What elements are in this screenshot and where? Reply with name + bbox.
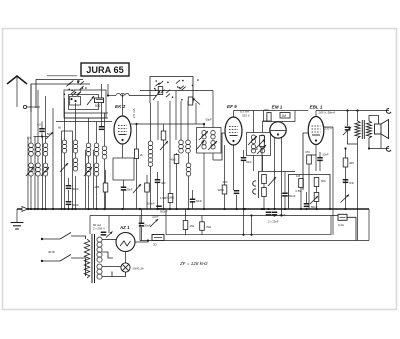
svg-text:25k: 25k — [190, 224, 195, 228]
osc rail — [140, 90, 213, 92]
EBL1 top lead — [315, 111, 317, 117]
trimmer C4 arrow — [87, 96, 94, 105]
bus junction x204 — [203, 208, 205, 210]
oscillator coil L10 — [186, 140, 191, 153]
bias network frame — [289, 175, 331, 210]
IFT2 primary b — [251, 145, 255, 154]
det cap lead2 — [243, 161, 245, 209]
tone corr capacitor 8nF — [345, 127, 351, 131]
feed v8 — [96, 122, 98, 144]
osc coil feed — [150, 103, 152, 141]
EF9 top lead — [233, 111, 235, 118]
AZ1 filament to lamp — [125, 252, 127, 263]
EM1 1M resistor — [280, 113, 290, 119]
dropper lead down — [201, 230, 203, 234]
tuner lower rail — [56, 121, 112, 123]
mixer tube EK2 — [114, 116, 131, 144]
junction EK2 grid — [121, 94, 123, 96]
osc trimmer T6 — [196, 141, 204, 150]
wave switch inner box — [69, 95, 99, 110]
osc pad lead — [146, 175, 148, 183]
osc resistor 40 — [174, 155, 179, 164]
bleeder resistor 25k — [183, 221, 188, 230]
svg-text:465: 465 — [349, 161, 354, 165]
tuner top rail — [47, 75, 77, 77]
EBL1 cap drop — [319, 161, 321, 171]
feed v6 — [75, 103, 77, 140]
rectifier filter caps — [101, 232, 107, 236]
B plus rail inner — [166, 234, 331, 236]
B rail v2 — [330, 216, 332, 235]
antenna coil L2 — [36, 143, 41, 156]
bus junction x176.5 — [175, 208, 177, 210]
EF9 top wire — [234, 110, 264, 112]
svg-text:320Ω: 320Ω — [218, 188, 225, 192]
bus junction x285 — [284, 208, 286, 210]
bus junction x264 — [263, 208, 265, 210]
EF9 cathode drop2 — [236, 195, 238, 209]
decoupling cap 20nF — [121, 187, 127, 191]
bus junction x274.5 — [273, 208, 275, 210]
EM1 series resistor 2M — [267, 113, 271, 122]
IFT1 primary — [202, 131, 206, 140]
bus junction x64.5 — [63, 208, 65, 210]
svg-text:52nF: 52nF — [323, 153, 329, 157]
decoup cap lead2 — [123, 191, 125, 210]
secondary bottom lead — [368, 138, 370, 149]
antenna coil L1 — [29, 143, 34, 156]
IFT1 secondary — [211, 131, 215, 140]
coil stub 5 — [75, 153, 77, 158]
padding cap C8 — [66, 185, 72, 189]
AF cap lead down — [284, 197, 286, 210]
osc coil L11 lead — [188, 153, 190, 163]
volume res drop — [263, 197, 265, 210]
antenna terminal — [23, 105, 26, 108]
bleeder lead2 — [185, 230, 187, 235]
svg-text:EBL 1: EBL 1 — [310, 105, 323, 110]
bus junction x224.5 — [223, 208, 225, 210]
tuning cap line 2 dot — [34, 208, 36, 210]
osc padder lead — [41, 122, 43, 129]
bus junction x38 — [37, 208, 39, 210]
antenna coil L3 — [43, 143, 48, 156]
tuning cap line 1 dot — [27, 208, 29, 210]
EK2 grid top lead — [122, 96, 124, 117]
tone corr drop — [347, 131, 349, 142]
bus junction x104.5 — [103, 208, 105, 210]
mains terminal lower — [41, 260, 43, 262]
IFT2 secondary bottom lead — [262, 156, 264, 172]
svg-text:50nF: 50nF — [72, 187, 79, 191]
AF cap lead up — [284, 172, 286, 193]
IFT2 trimmer arrow 1 — [248, 136, 257, 145]
padding cap C9 — [66, 201, 72, 205]
svg-text:+185: +185 — [93, 185, 100, 189]
tuning cap dot 5 — [71, 208, 73, 210]
antenna lead wire — [16, 77, 18, 107]
EBL1 cathode drop — [315, 145, 317, 172]
junction antenna feed — [107, 94, 109, 96]
EM1 grid pot 0,1M — [260, 136, 265, 147]
filter cap C30 — [139, 223, 145, 227]
EF9 cath res lead — [224, 145, 226, 185]
bus junction x330 — [329, 208, 331, 210]
coil stub 1 — [30, 156, 32, 163]
bus junction x245 — [244, 208, 246, 210]
antenna coil L2b — [36, 163, 41, 176]
IFT1 trimmer arrow 1 — [199, 131, 208, 140]
padder cap 4,5 — [39, 128, 45, 132]
HT tap lower — [102, 252, 113, 258]
tuning cap line 7 — [93, 150, 95, 209]
rectifier cap arrow — [106, 232, 113, 238]
EBL1 cathode resistor — [307, 155, 312, 164]
svg-text:40 W: 40 W — [48, 250, 56, 254]
EBL1 cath res drop — [308, 164, 310, 209]
secondary top lead — [369, 116, 379, 125]
svg-text:4nF: 4nF — [161, 181, 166, 185]
feed v2 — [37, 90, 39, 143]
dropper lead up — [201, 216, 203, 222]
ground lead — [16, 209, 18, 222]
svg-text:320: 320 — [223, 180, 228, 184]
bus junction x243.5 — [242, 208, 244, 210]
coil drop 3 — [45, 176, 47, 209]
output tube EBL1 — [308, 117, 324, 145]
output transformer secondary — [366, 121, 371, 138]
EK2 grid capacitor — [99, 126, 105, 130]
antenna wire to tuner — [27, 106, 40, 108]
tone corr arrow — [343, 127, 351, 135]
EK2 plate res dot — [135, 123, 137, 125]
feed v9 — [104, 113, 106, 146]
antenna choke coil — [116, 93, 129, 95]
EM1 top network box — [264, 111, 296, 122]
feed v5 — [64, 98, 66, 140]
bus junction x301 — [300, 208, 302, 210]
IFT1 trimmer arrow 2 — [208, 141, 217, 150]
oscillator shield box — [113, 158, 134, 180]
gramo terminal hooks — [253, 181, 256, 186]
bus junction x262 — [261, 208, 263, 210]
bus junction x345.5 — [344, 208, 346, 210]
speaker return wire — [369, 148, 389, 150]
mid cap lead2 — [157, 183, 159, 209]
IFT1 secondary b — [211, 141, 215, 150]
bus junction x122.5 — [121, 208, 123, 210]
osc res lead2 — [176, 164, 178, 210]
RF coil L7b — [94, 163, 99, 176]
oscillator trimmer arrow — [153, 91, 160, 100]
IF amp tube EF9 — [225, 117, 242, 145]
IFT1 to EF9 grid — [213, 133, 225, 160]
junction padder — [41, 135, 43, 137]
svg-text:50nF: 50nF — [289, 194, 296, 198]
filter cap lead2 — [141, 227, 143, 241]
speaker — [375, 124, 382, 134]
osc pad resistor — [145, 183, 150, 192]
svg-text:50nF: 50nF — [72, 203, 79, 207]
junction plate rail a — [346, 109, 348, 111]
coil stub 2 — [37, 156, 39, 163]
osc grid res lead — [163, 124, 165, 131]
RF coil L8 — [102, 146, 107, 159]
EF9 cath res lead2 — [224, 194, 226, 209]
bus junction x53 — [52, 208, 54, 210]
svg-text:3,5: 3,5 — [27, 136, 32, 140]
svg-text:2,5 mA: 2,5 mA — [132, 108, 136, 118]
EBL1 plate top wire — [316, 110, 389, 112]
AVC resistor 1,5M — [168, 194, 173, 203]
svg-text:6V/0,3A: 6V/0,3A — [133, 267, 144, 271]
EBL1 grid wire — [303, 133, 308, 190]
junction speaker return — [368, 147, 370, 149]
magic eye tube EM1 — [270, 122, 286, 138]
IFT2 secondary top lead — [262, 121, 264, 133]
oscillator coil L12b — [148, 154, 153, 167]
trimmer T3 — [60, 163, 68, 172]
detector cap 100pF — [241, 157, 247, 161]
osc res lead — [176, 153, 178, 155]
svg-text:470: 470 — [305, 150, 310, 154]
svg-text:10nF: 10nF — [246, 160, 252, 164]
speaker line hook bottom — [386, 146, 391, 151]
B rail v4b — [251, 216, 253, 235]
tuner right feeder — [101, 84, 103, 113]
EM1 cathode drop1 — [274, 138, 276, 209]
heater tap a — [102, 266, 121, 268]
bus junction x75.5 — [74, 208, 76, 210]
svg-text:2 x 295 V: 2 x 295 V — [93, 227, 105, 231]
svg-text:100nF: 100nF — [147, 202, 155, 206]
osc trimmer T5 — [160, 141, 168, 150]
EF9 cathode resistor — [222, 185, 227, 194]
osc pad lead2 — [146, 192, 148, 209]
RF coil L7 — [94, 143, 99, 156]
IFT2 secondary b — [260, 145, 264, 154]
IFT2 primary bottom lead — [253, 156, 255, 172]
AF coupling cap 50nF — [282, 193, 288, 197]
bus junction x140 — [139, 208, 141, 210]
RF coil L6 — [86, 143, 91, 156]
tuner inner rail 2 — [64, 117, 108, 119]
oscillator trimmer box 2 — [188, 97, 193, 105]
rail dot b — [250, 234, 252, 236]
feed v4 — [52, 108, 54, 209]
EBL1 cath link — [309, 154, 316, 156]
svg-text:JURA 65: JURA 65 — [86, 65, 123, 75]
HT tap upper — [102, 239, 116, 241]
osc coil L11 lead2 — [188, 176, 190, 209]
EK2 cathode drop — [122, 144, 124, 158]
mid cap lead — [157, 172, 159, 179]
svg-text:40Ω: 40Ω — [171, 158, 176, 162]
tone pot arrow — [310, 196, 318, 204]
EM1 top lead — [277, 121, 279, 124]
tone resistor lower — [314, 193, 319, 202]
tone cap feeder — [347, 111, 349, 127]
bus junction x31 — [30, 208, 32, 210]
EBL1 cap lead — [319, 152, 321, 157]
EK2 plate wire — [131, 123, 204, 125]
B rail v3 — [139, 216, 141, 241]
coil stub 4 — [64, 153, 66, 209]
svg-text:EM 1: EM 1 — [272, 105, 283, 110]
AVC cap lead2 — [192, 203, 194, 210]
tuner inner rail 1 — [64, 112, 108, 114]
svg-text:500: 500 — [95, 104, 101, 108]
svg-text:315 V: 315 V — [242, 114, 251, 118]
det cap lead — [243, 150, 245, 157]
EK2 plate res lead up — [136, 124, 138, 149]
IFT2 to EM1 link — [263, 120, 270, 122]
svg-text:0,5M: 0,5M — [296, 189, 303, 193]
speaker line hook top — [386, 108, 391, 113]
oscillator trimmer box — [158, 87, 163, 95]
coil drop 5 — [75, 176, 77, 209]
choke to oscillator wire — [129, 95, 157, 97]
plate rail link — [295, 110, 308, 112]
antenna symbol — [7, 76, 27, 84]
EK2 plate res lead down — [136, 159, 138, 210]
mains wire to transformer upper — [71, 236, 86, 239]
junction plate rail b — [356, 109, 358, 111]
EBL1 screen wire — [324, 126, 333, 128]
cap C9 lead — [68, 190, 70, 201]
tone res link — [316, 187, 318, 193]
coil drop 6 — [88, 176, 90, 209]
antenna feed riser — [107, 84, 109, 96]
feed v1 — [30, 84, 32, 143]
IFT1 primary b — [202, 141, 206, 150]
filter cap lead — [141, 209, 143, 223]
cap C8 lead — [68, 178, 70, 185]
osc coil L12 drop — [150, 166, 152, 209]
RF coil L5 — [73, 140, 78, 153]
tuning cap line 5 — [72, 131, 74, 209]
tuning cap line 6 — [85, 150, 87, 209]
oscillator coil L9 — [179, 140, 184, 153]
coil stub 8 — [104, 159, 106, 209]
svg-text:265 V, 36mA: 265 V, 36mA — [318, 111, 336, 115]
tone cap lead — [306, 192, 308, 203]
IF transformer 2 box — [247, 133, 271, 156]
AVC cap 50nF — [190, 199, 196, 203]
heater tap b — [102, 272, 112, 277]
rectifier tube AZ1 — [116, 233, 135, 252]
svg-text:0,2A: 0,2A — [338, 223, 344, 227]
RF coil L6b — [86, 163, 91, 176]
padder capacitor 500 — [95, 98, 104, 103]
tone res drop — [316, 202, 318, 210]
feed v7 — [88, 118, 90, 143]
rectifier cap feed — [108, 216, 110, 234]
speaker bottom lead — [380, 134, 382, 149]
EBL1 cathode cap 50uF — [317, 157, 323, 161]
tone corr to primary — [348, 141, 358, 144]
tuning cap dot 4 — [60, 208, 62, 210]
B rail v5 — [368, 209, 370, 241]
padder trimmer arrow — [46, 132, 53, 139]
chassis ground bus — [17, 208, 369, 210]
IFT2 primary — [251, 135, 255, 144]
osc drop 3 — [175, 91, 177, 141]
EM1 heater dot — [280, 214, 282, 216]
decoup res lead down — [105, 192, 107, 209]
fuse out wire — [347, 217, 356, 240]
bus junction x157.5 — [156, 208, 158, 210]
smoothing cap 25nF a — [266, 212, 272, 216]
contact dot b — [74, 100, 76, 102]
bus junction x96.5 — [95, 208, 97, 210]
volume resistor upper — [262, 175, 267, 184]
bus junction x45.5 — [44, 208, 46, 210]
bus junction x88.5 — [87, 208, 89, 210]
IFT2 secondary — [260, 135, 264, 144]
field res lead up — [345, 149, 347, 159]
volume pot arrow — [268, 177, 276, 186]
bus junction x236.5 — [235, 208, 237, 210]
tuning cap line 2 — [34, 137, 36, 210]
AF network frame — [259, 172, 296, 199]
svg-text:2 x 25nF: 2 x 25nF — [268, 220, 279, 224]
osc drop 2 — [169, 101, 171, 209]
trimmer T2 — [41, 167, 49, 176]
svg-text:50: 50 — [47, 132, 51, 136]
bus junction x316.5 — [315, 208, 317, 210]
mains switch blade lower — [60, 255, 71, 262]
field resistor 465 — [343, 158, 348, 167]
bus junction x170 — [169, 208, 171, 210]
power transformer primary — [84, 239, 89, 278]
B rail v1 — [165, 209, 167, 235]
coil drop 7 — [96, 176, 98, 209]
tuning cap line 4 — [61, 131, 63, 209]
rail dot a — [242, 234, 244, 236]
IF transformer 1 box — [197, 128, 222, 154]
earth ground symbol — [11, 222, 24, 224]
svg-text:2Ω: 2Ω — [153, 243, 157, 247]
EM1 cathode drop2 — [281, 138, 283, 216]
primary bottom lead — [357, 138, 359, 240]
tuning cap line 3 dot — [41, 208, 43, 210]
svg-text:2MΩ: 2MΩ — [264, 108, 270, 112]
osc drop 6 — [195, 103, 197, 124]
osc drop 1 — [157, 101, 159, 140]
decoup res lead up — [105, 170, 107, 183]
RF coil L5b — [73, 158, 78, 171]
smoothing cap 25nF b — [272, 212, 278, 216]
grid leak drop — [300, 188, 302, 210]
oscillator switch contacts — [154, 79, 199, 100]
EBL1 screen drop — [332, 127, 334, 235]
feed v3 — [45, 96, 47, 143]
field pot arrow — [341, 195, 350, 203]
svg-text:500nF: 500nF — [160, 210, 168, 214]
EM1 pot arrow — [256, 139, 265, 148]
EF9 cathode cap — [234, 190, 240, 194]
osc drop 4 — [180, 101, 182, 140]
bus junction x68.5 — [67, 208, 69, 210]
svg-text:50k: 50k — [321, 179, 326, 183]
AZ1 output junction — [147, 239, 149, 241]
title box JURA 65 — [81, 63, 129, 76]
mains wire upper — [42, 238, 60, 240]
power transformer HT secondary — [97, 237, 102, 262]
svg-text:EF 9: EF 9 — [227, 104, 237, 109]
osc grid resistor — [161, 131, 166, 140]
